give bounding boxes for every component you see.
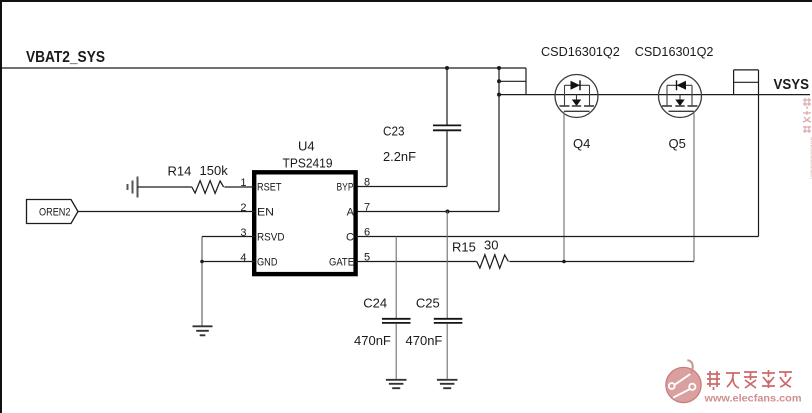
wire GND pin 4 — [202, 261, 255, 263]
wire GATE right segment to Q5 gate — [509, 261, 694, 263]
node junction C23 top — [445, 66, 449, 70]
wire vertical RSVD/GND to ground — [201, 237, 203, 327]
wire C pin 6 net — [356, 236, 759, 238]
wire Q5 gate vertical — [693, 111, 695, 261]
wire FET drain-source rail — [526, 94, 810, 96]
svg-text:7: 7 — [364, 202, 370, 214]
ground sideways (RSET bias) — [128, 177, 138, 198]
svg-text:EN: EN — [257, 207, 274, 219]
wire VSYS vertical to C net — [758, 95, 760, 237]
wire BYP pin8 — [356, 186, 447, 188]
svg-text:3: 3 — [240, 227, 246, 239]
svg-text:CSD16301Q2: CSD16301Q2 — [635, 44, 714, 59]
svg-text:VBAT2_SYS: VBAT2_SYS — [26, 49, 105, 66]
svg-text:C23: C23 — [383, 124, 405, 139]
svg-text:R14: R14 — [168, 164, 192, 179]
svg-text:TPS2419: TPS2419 — [283, 156, 333, 171]
IC U4 TPS2419 body — [254, 172, 355, 274]
capacitor C23 — [433, 68, 461, 187]
ground symbol C24 — [386, 380, 407, 388]
jumper block left (VBAT2 side) — [499, 68, 526, 95]
wire EN from OREN2 to pin 2 — [78, 211, 255, 213]
svg-text:GND: GND — [257, 257, 278, 269]
svg-text:CSD16301Q2: CSD16301Q2 — [541, 44, 620, 59]
wire GATE pin 5 left segment — [356, 261, 477, 263]
svg-text:Q5: Q5 — [669, 136, 686, 151]
resistor R15 zigzag — [477, 255, 509, 269]
svg-text:A: A — [347, 207, 355, 219]
wire RSVD pin 3 — [202, 236, 255, 238]
node junction jumper top — [497, 66, 501, 70]
svg-text:www.elecfans.com: www.elecfans.com — [703, 393, 801, 405]
node junction jumper mid — [497, 79, 501, 83]
svg-text:150k: 150k — [200, 163, 229, 178]
transistor Q5 (NMOS with body diode, drain right) — [659, 75, 702, 118]
svg-text:4: 4 — [240, 252, 246, 264]
svg-text:C: C — [346, 232, 354, 244]
svg-text:470nF: 470nF — [406, 333, 443, 348]
capacitor C25 — [434, 212, 463, 379]
svg-text:8: 8 — [364, 177, 370, 189]
svg-text:C24: C24 — [363, 296, 387, 311]
frame left border — [0, 0, 2, 413]
svg-text:RSVD: RSVD — [257, 232, 285, 244]
wire A pin7 — [356, 211, 499, 213]
resistor R14 zigzag — [192, 181, 224, 194]
svg-text:BYP: BYP — [337, 182, 354, 194]
wire RSET left segment — [138, 186, 192, 188]
transistor Q4 (NMOS with body diode, drain left) — [555, 75, 598, 118]
svg-text:GATE: GATE — [329, 257, 354, 269]
port flag OREN2 — [27, 200, 79, 224]
svg-text:Q4: Q4 — [573, 136, 590, 151]
watermark logo circle — [666, 360, 701, 402]
svg-text:OREN2: OREN2 — [39, 207, 71, 219]
wire vertical A to jumper J1 — [498, 68, 500, 212]
frame top border — [0, 0, 812, 2]
node junction GND — [200, 260, 204, 264]
wire RSET right segment to pin 1 — [224, 186, 255, 188]
watermark chinese characters — [707, 370, 792, 390]
svg-text:RSET: RSET — [257, 182, 282, 194]
watermark vertical right edge — [803, 98, 811, 133]
wire Q4 gate vertical — [563, 111, 565, 261]
capacitor C24 — [382, 237, 411, 379]
node junction A / C25 — [446, 210, 450, 214]
svg-text:2.2nF: 2.2nF — [383, 149, 416, 164]
ground symbol below U4 — [193, 326, 213, 335]
svg-text:C25: C25 — [416, 296, 440, 311]
svg-text:R15: R15 — [452, 240, 476, 255]
svg-text:30: 30 — [484, 238, 498, 253]
svg-text:www.elecfans.com: www.elecfans.com — [809, 136, 812, 179]
node junction Q4 gate — [562, 260, 566, 264]
svg-text:VSYS: VSYS — [774, 76, 810, 93]
node junction jumper bottom — [497, 93, 501, 97]
wire VBAT2_SYS horizontal — [2, 67, 499, 69]
svg-text:2: 2 — [240, 202, 246, 214]
jumper block right (VSYS side) — [734, 70, 759, 95]
ground symbol C25 — [437, 380, 458, 388]
svg-text:U4: U4 — [298, 139, 315, 154]
svg-text:470nF: 470nF — [354, 333, 391, 348]
